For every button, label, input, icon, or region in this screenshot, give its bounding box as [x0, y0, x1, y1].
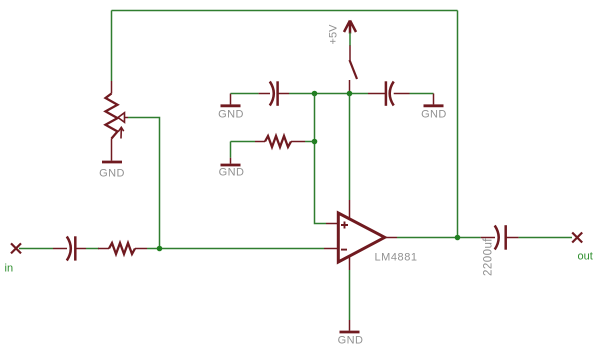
node junction bus / +input feed [312, 91, 318, 97]
wire from power node down to op-amp V+ pin [349, 94, 351, 201]
wire from input resistor to op-amp inverting input [147, 248, 324, 250]
node junction bus / power feed [347, 91, 353, 97]
wire between input cap and input resistor [86, 248, 99, 250]
resistor R-in (series input) [98, 243, 147, 254]
ground under op-amp [338, 320, 364, 347]
wire right vertical rail down to output node [457, 11, 459, 238]
wire R2 to vertical [305, 141, 315, 143]
resistor R2 (to +input node) [255, 136, 305, 147]
capacitor C-in (input, polarized) [53, 236, 86, 260]
node junction output / right rail [455, 235, 461, 241]
node junction feedback resistor [312, 139, 318, 145]
out connector [572, 233, 593, 263]
capacitor C2 (right bypass, polarized) [368, 81, 410, 106]
wire left gnd to C1 [231, 93, 259, 95]
wire output cap to out connector [519, 237, 572, 239]
ground right of top bus [421, 94, 447, 121]
ground for R2 [219, 158, 245, 179]
capacitor C1 (left bypass, polarized) [259, 81, 289, 106]
capacitor C-out 2200uf (polarized) [481, 225, 519, 250]
wire op-amp gnd pin down [349, 270, 351, 320]
wire from potentiometer wiper down to input line [128, 118, 160, 249]
wire from bus node down to +input corner [315, 94, 327, 224]
wire from +5V to switch [349, 33, 351, 47]
svg-text:+5V: +5V [328, 24, 340, 45]
switch S1 [350, 46, 358, 94]
svg-text:GND: GND [421, 109, 447, 121]
node junction wiper/input [157, 246, 163, 252]
ground left of top bus [218, 94, 244, 121]
ground under potentiometer [99, 162, 125, 180]
wire mid gnd to R2 [231, 141, 256, 143]
wire from top bus down to potentiometer top [111, 11, 113, 82]
wire top bus from potentiometer to right rail [112, 10, 458, 12]
svg-text:LM4881: LM4881 [375, 252, 418, 264]
supply +5V [328, 21, 357, 45]
svg-text:GND: GND [99, 168, 125, 180]
wire C2 to right gnd [410, 93, 434, 95]
svg-text:in: in [5, 263, 14, 275]
svg-text:2200uf: 2200uf [483, 238, 495, 276]
op-amp U1 LM4881 [324, 200, 397, 270]
wire bus between C1 and C2 [289, 93, 368, 95]
svg-text:out: out [578, 251, 593, 263]
in connector [5, 243, 22, 274]
svg-text:GND: GND [219, 167, 245, 179]
svg-text:GND: GND [218, 109, 244, 121]
wire op-amp output to output node [397, 237, 481, 239]
svg-text:GND: GND [338, 335, 364, 347]
potentiometer (trimmer) [106, 81, 129, 161]
wire from in connector to input capacitor [19, 248, 53, 250]
